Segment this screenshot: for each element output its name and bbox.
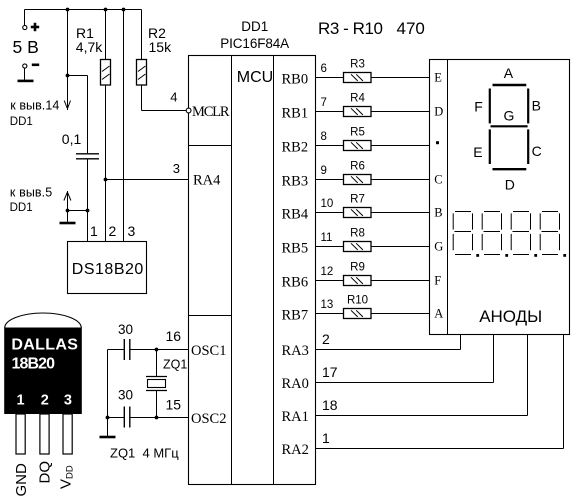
svg-text:OSC2: OSC2 xyxy=(191,411,226,427)
svg-text:3: 3 xyxy=(64,393,72,409)
svg-text:3: 3 xyxy=(128,223,136,239)
svg-text:DD1: DD1 xyxy=(10,116,33,128)
svg-text:12: 12 xyxy=(321,266,334,278)
svg-text:MCU: MCU xyxy=(237,69,273,86)
svg-text:A: A xyxy=(504,65,514,81)
svg-text:R3 - R10: R3 - R10 xyxy=(318,19,383,38)
svg-text:10: 10 xyxy=(321,198,334,210)
svg-text:PIC16F84A: PIC16F84A xyxy=(220,36,289,51)
svg-text:DQ: DQ xyxy=(36,461,53,484)
svg-text:9: 9 xyxy=(321,165,327,177)
svg-text:к выв.14: к выв.14 xyxy=(10,99,59,113)
svg-text:16: 16 xyxy=(166,328,182,344)
svg-text:GND: GND xyxy=(13,463,30,497)
svg-text:4: 4 xyxy=(170,90,177,105)
svg-text:ZQ1 4 МГц: ZQ1 4 МГц xyxy=(110,446,179,461)
svg-text:18B20: 18B20 xyxy=(12,356,56,373)
svg-text:MCLR: MCLR xyxy=(192,104,230,120)
svg-text:R4: R4 xyxy=(350,93,365,105)
svg-text:D: D xyxy=(505,177,515,193)
svg-text:RA1: RA1 xyxy=(282,409,309,425)
svg-text:A: A xyxy=(434,307,443,321)
svg-text:G: G xyxy=(504,108,515,124)
svg-text:RB7: RB7 xyxy=(282,308,309,324)
svg-text:1: 1 xyxy=(17,393,25,409)
svg-text:F: F xyxy=(474,99,483,115)
svg-text:E: E xyxy=(473,144,482,160)
svg-text:DD1: DD1 xyxy=(10,202,33,214)
svg-text:C: C xyxy=(532,143,542,159)
svg-text:F: F xyxy=(434,274,441,288)
svg-text:470: 470 xyxy=(397,19,425,38)
svg-text:6: 6 xyxy=(321,63,327,75)
svg-text:RB1: RB1 xyxy=(282,106,309,122)
svg-text:2: 2 xyxy=(322,331,330,347)
svg-text:RA0: RA0 xyxy=(282,376,309,392)
svg-text:4,7k: 4,7k xyxy=(76,39,103,55)
svg-text:RB6: RB6 xyxy=(282,275,309,291)
svg-text:RB5: RB5 xyxy=(282,241,309,257)
svg-text:C: C xyxy=(434,173,442,187)
svg-text:D: D xyxy=(434,105,443,119)
svg-text:13: 13 xyxy=(321,299,334,311)
svg-text:RA2: RA2 xyxy=(282,442,309,458)
svg-text:RA3: RA3 xyxy=(282,343,309,359)
svg-text:RB3: RB3 xyxy=(282,174,309,190)
svg-text:7: 7 xyxy=(321,97,327,109)
svg-text:30: 30 xyxy=(118,388,133,403)
svg-text:R3: R3 xyxy=(350,59,365,71)
svg-text:VDD: VDD xyxy=(58,465,76,489)
svg-text:OSC1: OSC1 xyxy=(191,343,226,359)
svg-text:DALLAS: DALLAS xyxy=(11,337,78,354)
svg-text:3: 3 xyxy=(173,161,180,176)
svg-text:1: 1 xyxy=(90,223,98,239)
svg-text:E: E xyxy=(434,71,442,85)
svg-text:DD1: DD1 xyxy=(241,19,268,34)
svg-text:ZQ1: ZQ1 xyxy=(163,357,187,371)
svg-text:30: 30 xyxy=(118,322,133,337)
svg-text:1: 1 xyxy=(322,430,330,446)
svg-text:RA4: RA4 xyxy=(193,173,221,189)
svg-text:2: 2 xyxy=(109,223,117,239)
svg-text:R7: R7 xyxy=(350,194,365,206)
svg-text:DS18B20: DS18B20 xyxy=(72,261,144,278)
svg-text:18: 18 xyxy=(322,397,338,413)
svg-text:R10: R10 xyxy=(347,295,368,307)
svg-text:17: 17 xyxy=(322,364,338,380)
svg-text:RB4: RB4 xyxy=(282,207,309,223)
svg-text:5 В: 5 В xyxy=(13,37,39,57)
svg-text:G: G xyxy=(434,240,443,254)
svg-text:RB2: RB2 xyxy=(282,140,309,156)
svg-text:15k: 15k xyxy=(149,39,173,55)
svg-text:к выв.5: к выв.5 xyxy=(10,186,52,200)
svg-text:0,1: 0,1 xyxy=(62,131,82,147)
svg-text:2: 2 xyxy=(41,393,49,409)
svg-text:АНОДЫ: АНОДЫ xyxy=(479,307,542,326)
svg-text:R6: R6 xyxy=(350,161,365,173)
svg-text:R8: R8 xyxy=(350,228,365,240)
svg-text:11: 11 xyxy=(321,232,333,244)
svg-text:R5: R5 xyxy=(350,127,365,139)
svg-text:R9: R9 xyxy=(350,262,365,274)
svg-text:B: B xyxy=(532,98,541,114)
svg-text:8: 8 xyxy=(321,131,327,143)
svg-text:B: B xyxy=(434,206,442,220)
svg-text:15: 15 xyxy=(166,397,182,413)
svg-text:RB0: RB0 xyxy=(282,72,309,88)
